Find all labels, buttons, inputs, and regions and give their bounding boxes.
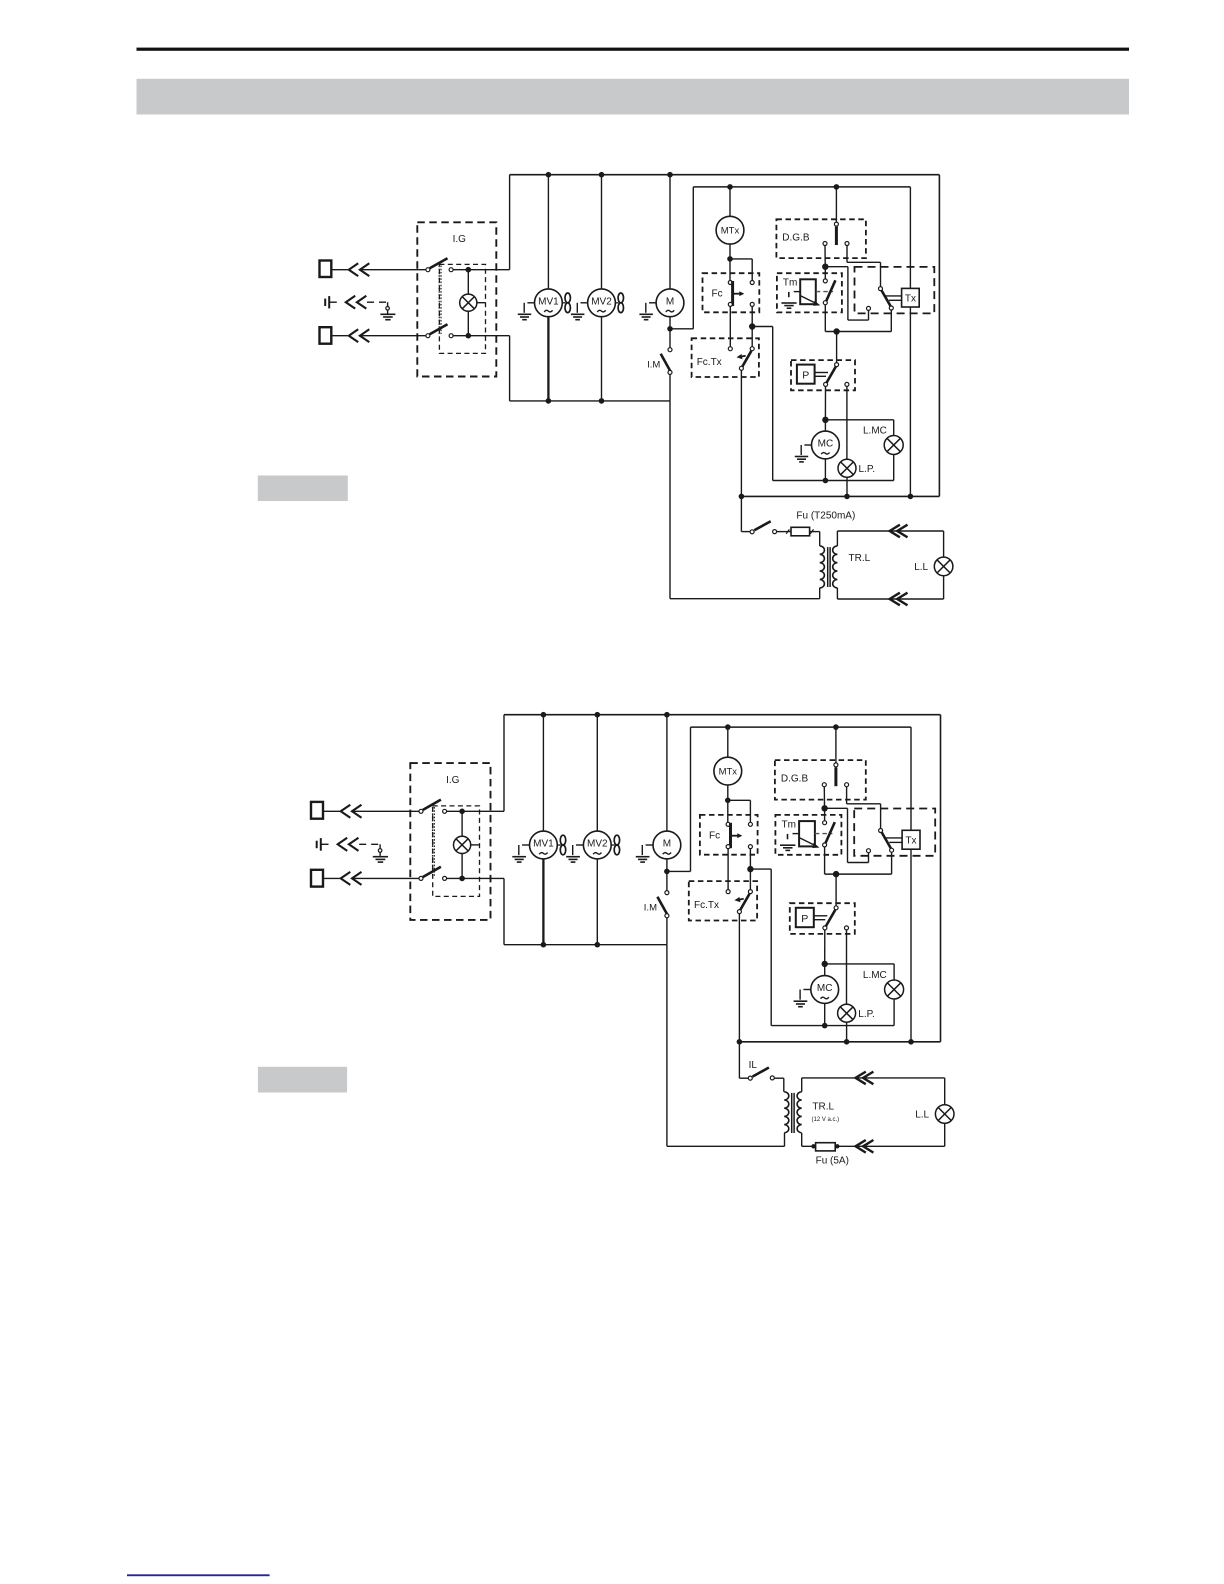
wire MV1 branch: [542, 715, 544, 831]
wire I.G to top bus: [453, 269, 510, 271]
wire plug to connector arrows (lower): [331, 335, 348, 337]
switch box Fc.Tx (dashed): [692, 338, 759, 377]
switch box D.G.B (dashed): [775, 760, 866, 800]
wire P right contact to L.P lamp: [846, 930, 848, 1004]
wire P left contact down: [824, 930, 826, 964]
wire connector to I.G switch (upper): [352, 810, 419, 812]
node below MTx: [727, 256, 733, 262]
wiring diagram 1: [320, 172, 953, 605]
bottom return bus: [741, 495, 939, 497]
wire plug to connector arrows (upper): [323, 810, 340, 812]
node bottom bus L.P: [844, 1039, 850, 1045]
thermostat box Tx: [902, 830, 920, 849]
earth terminal symbol: [316, 841, 318, 849]
I.G ganged linkage (dotted): [432, 807, 434, 877]
Fc.Tx trip arrow: [741, 355, 746, 358]
I.G inner dashed box: [439, 264, 485, 353]
wire M branch: [666, 715, 668, 831]
node I.G upper: [459, 809, 465, 815]
top supply bus: [510, 174, 940, 176]
Fc trip arrow: [734, 293, 741, 295]
node M bottom: [664, 869, 670, 875]
wire D.G.B node to Tx changeover contact: [825, 807, 848, 809]
svg-text:Fu (T250mA): Fu (T250mA): [796, 510, 855, 521]
thermostat box Tm (dashed): [777, 273, 842, 312]
lamp L.MC: [893, 964, 895, 980]
lamp L.P: [838, 459, 856, 477]
wire Fc.Tx to bottom bus: [738, 914, 740, 1042]
wire MC row top: [825, 963, 894, 965]
switch IL: [738, 1042, 740, 1078]
node D.G.B-Tm: [821, 805, 827, 811]
motor MTx: [714, 757, 742, 785]
svg-text:MTx: MTx: [721, 226, 740, 237]
I.G switch pole lower: [426, 334, 430, 338]
wire Fc node to MC box: [752, 326, 773, 328]
wire I.G to top bus: [447, 810, 504, 812]
pressure switch box P (dashed): [790, 903, 855, 934]
wire fuse to transformer: [813, 531, 820, 533]
connector arrows earth line: [346, 296, 355, 309]
wire IL to transformer: [774, 1077, 783, 1079]
D.G.B switch: [835, 727, 837, 763]
node MC feed: [822, 417, 828, 423]
dashed earth wire: [359, 843, 380, 845]
motor MTx: [716, 216, 744, 244]
svg-text:L.P.: L.P.: [858, 1009, 875, 1020]
svg-text:D.G.B: D.G.B: [781, 774, 809, 785]
P switch: [836, 332, 838, 363]
node M bottom: [667, 326, 673, 332]
P body: [797, 365, 815, 384]
wire MC row top: [825, 419, 893, 421]
svg-text:M: M: [663, 839, 671, 850]
svg-text:L.L: L.L: [915, 1110, 929, 1121]
fan of MV2: [611, 844, 614, 846]
svg-text:L.MC: L.MC: [863, 426, 887, 437]
svg-text:Fc: Fc: [709, 831, 720, 842]
node top bus MV1: [546, 172, 552, 178]
svg-text:I.G: I.G: [453, 234, 467, 245]
Fc.Tx contacts and blade: [728, 347, 732, 351]
Tx region dashed box: [854, 809, 935, 856]
page header rule: [137, 48, 1130, 51]
terminal plug lower: [320, 327, 332, 344]
figure label box diagram 2: [258, 1067, 347, 1093]
connector arrows secondary top: [890, 525, 900, 538]
wire D.G.B left contact down: [824, 246, 826, 265]
inner supply bus: [691, 726, 912, 728]
node inner bus D.G.B: [833, 724, 839, 730]
transformer TR.L: [820, 546, 825, 588]
motor M: [653, 831, 681, 859]
svg-text:MV2: MV2: [591, 296, 612, 307]
motor MC: [812, 431, 840, 459]
Tx link lines: [884, 295, 902, 297]
wire plug to connector arrows (upper): [331, 269, 348, 271]
wire MC branch: [824, 964, 826, 976]
wire left return to lamp transformer: [669, 401, 671, 599]
Tm sensor arrow: [800, 295, 817, 303]
svg-text:I.M: I.M: [647, 359, 660, 370]
node inner bus D.G.B: [834, 184, 840, 190]
pilot lamp in I.G: [467, 270, 469, 294]
wire Fc.Tx to bottom bus: [740, 370, 742, 496]
motor MV1: [535, 289, 563, 317]
connector arrows secondary top: [856, 1072, 866, 1085]
motor MV2: [583, 831, 611, 859]
P body: [796, 908, 814, 927]
svg-text:MC: MC: [817, 983, 833, 994]
connector arrows secondary bottom: [856, 1140, 866, 1153]
svg-text:Tx: Tx: [905, 293, 916, 304]
motor MV2: [588, 289, 616, 317]
connector arrows secondary bottom: [890, 593, 900, 606]
wire secondary top: [801, 1078, 803, 1092]
node I.G lower: [466, 333, 472, 339]
wire plug to connector arrows (lower): [323, 877, 340, 879]
node I.G upper: [466, 267, 472, 273]
svg-text:MV1: MV1: [538, 296, 559, 307]
ground at MV2: [581, 302, 588, 304]
wire D.G.B right contact to changeover pivot: [846, 246, 848, 263]
svg-text:L.MC: L.MC: [863, 970, 887, 981]
Fc left pole: [727, 800, 729, 822]
node Fc to MC feed: [747, 866, 753, 872]
node Fc to MC feed: [749, 323, 755, 329]
node bottom bus Tx: [908, 494, 914, 500]
node bottom bus L.P: [844, 494, 850, 500]
wire MV2 branch: [596, 715, 598, 831]
Fc left pole: [729, 259, 731, 281]
pilot lamp in I.G: [461, 811, 463, 836]
switch box Fc.Tx (dashed): [689, 881, 757, 920]
svg-text:L.P.: L.P.: [859, 464, 876, 475]
terminal plug lower: [311, 870, 323, 887]
node MV2 bottom: [595, 942, 601, 948]
lamp L.P: [838, 1004, 856, 1022]
transformer TR.L (12V): [784, 1092, 789, 1133]
wire left return to lamp transformer: [666, 945, 668, 1147]
svg-text:Fc.Tx: Fc.Tx: [697, 357, 722, 368]
ground at M: [646, 844, 653, 846]
node I.G lower: [459, 876, 465, 882]
top supply bus: [504, 714, 941, 716]
svg-text:I.G: I.G: [446, 775, 460, 786]
thermostat box Tx: [902, 288, 920, 307]
motor MTx branch: [729, 187, 731, 216]
wire D.G.B node to Tx changeover contact: [825, 266, 848, 268]
ground at M: [649, 302, 656, 304]
fan of MV1: [558, 844, 561, 846]
terminal plug upper (diagram 1): [320, 261, 332, 278]
wire Tm to P row: [825, 873, 892, 875]
svg-text:Tx: Tx: [905, 835, 916, 846]
motor MV1: [530, 831, 558, 859]
node MC bottom: [823, 478, 829, 484]
main switch I.G dashed box: [410, 763, 490, 920]
svg-text:D.G.B: D.G.B: [782, 233, 810, 244]
Tx changeover switch: [879, 829, 883, 833]
ground at MV1: [522, 844, 529, 846]
Fc right pole: [728, 799, 751, 801]
motor MTx branch: [727, 727, 729, 757]
bottom return bus: [739, 1041, 940, 1043]
earth terminal symbol: [324, 299, 326, 306]
Fc.Tx trip arrow: [739, 898, 744, 901]
node top bus M: [664, 712, 670, 718]
wire connector to I.G switch (lower): [352, 877, 419, 879]
lamp L.L: [943, 531, 945, 557]
Tm sensor arrow: [798, 837, 815, 846]
svg-text:I.M: I.M: [644, 903, 657, 914]
node bottom bus left: [737, 1039, 743, 1045]
wire MC box bottom rail: [771, 1025, 894, 1027]
node P feed: [833, 871, 839, 877]
wire Tx branch: [910, 727, 912, 830]
wire P left contact down: [824, 386, 826, 419]
figure label box diagram 1: [258, 476, 348, 502]
node MV1 bottom: [546, 398, 552, 404]
svg-text:TR.L: TR.L: [849, 553, 871, 564]
wire I.G lower to bottom rail: [453, 335, 510, 337]
Tm sensor body: [799, 821, 815, 846]
Fc.Tx contacts and blade: [726, 890, 730, 894]
fuse Fu (T250mA): [787, 531, 814, 533]
thermostat box Tm (dashed): [775, 815, 841, 855]
svg-text:Fu (5A): Fu (5A): [816, 1156, 849, 1167]
wire connector to I.G switch (lower): [360, 335, 426, 337]
earth ground symbol: [379, 844, 381, 849]
node inner bus MTx: [725, 724, 731, 730]
svg-text:Fc: Fc: [712, 289, 723, 300]
Tm switch: [824, 267, 826, 279]
P link lines: [815, 372, 828, 374]
Tx region dashed box: [855, 267, 935, 314]
ground at MC: [803, 989, 810, 991]
svg-text:M: M: [666, 296, 674, 307]
node MV2 bottom: [599, 398, 605, 404]
wire Tm to P row: [825, 331, 891, 333]
node top bus MV2: [599, 172, 605, 178]
wire D.G.B right contact to changeover pivot: [846, 787, 848, 804]
wire MV1 branch: [547, 175, 549, 289]
main switch I.G dashed box: [417, 222, 496, 376]
node top bus M: [667, 172, 673, 178]
node MC bottom: [822, 1023, 828, 1029]
motor M: [656, 289, 684, 317]
svg-text:TR.L: TR.L: [812, 1101, 834, 1112]
node MC feed: [822, 961, 828, 967]
fuse Fu (5A): [816, 1143, 836, 1151]
svg-text:Fc.Tx: Fc.Tx: [694, 900, 719, 911]
wiring diagram 2: [311, 712, 954, 1167]
wire M node to inner box: [667, 870, 691, 872]
connector arrows upper line: [341, 805, 351, 818]
switch I.M: [666, 871, 668, 890]
Tx link lines: [884, 837, 902, 839]
fan of MV2: [615, 302, 618, 304]
switch I.M: [669, 329, 671, 348]
svg-text:(12 V a.c.): (12 V a.c.): [812, 1117, 840, 1123]
Tm link dashed: [816, 291, 833, 293]
I.G switch pole lower: [419, 876, 423, 880]
svg-text:IL: IL: [749, 1060, 758, 1071]
motor MC: [811, 976, 839, 1004]
P switch: [835, 874, 837, 906]
Tm sensor body: [800, 279, 816, 304]
wire Tx branch: [909, 187, 911, 289]
connector arrows earth line: [338, 838, 348, 851]
wire outer right edge: [938, 175, 940, 497]
svg-text:MV1: MV1: [533, 839, 554, 850]
switch box D.G.B (dashed): [776, 219, 866, 258]
ground at MV2: [576, 844, 583, 846]
connector arrows lower line: [341, 872, 351, 885]
I.G switch pole upper: [426, 268, 430, 272]
I.G ganged linkage (dotted): [438, 266, 440, 335]
svg-text:P: P: [802, 370, 809, 382]
node P feed: [833, 328, 839, 334]
svg-text:L.L: L.L: [914, 562, 928, 573]
ground at MV1: [527, 302, 534, 304]
node MV1 bottom: [541, 942, 547, 948]
svg-text:MTx: MTx: [719, 767, 738, 778]
node bottom bus left: [739, 494, 745, 500]
terminal plug upper (diagram 2): [311, 802, 323, 819]
wire D.G.B left contact down: [823, 787, 825, 806]
wire MC box bottom rail: [773, 480, 894, 482]
wire M branch: [669, 175, 671, 289]
pressure switch box P (dashed): [791, 360, 855, 390]
connector arrows lower line: [349, 329, 358, 342]
I.G inner dashed box: [433, 806, 480, 897]
lamp L.L: [944, 1078, 946, 1105]
switch box Fc (dashed): [703, 273, 760, 312]
Fc trip arrow: [731, 835, 738, 837]
inner supply bus: [693, 186, 910, 188]
footer blue rule: [127, 1574, 270, 1576]
I.G switch pole upper: [419, 809, 423, 813]
node D.G.B-Tm: [822, 264, 828, 270]
wire M node to inner box: [670, 328, 693, 330]
ground at MC: [804, 444, 811, 446]
svg-text:Tm: Tm: [783, 278, 797, 289]
D.G.B switch: [835, 187, 837, 222]
wire outer right edge: [940, 715, 942, 1042]
Tm ground: [793, 833, 800, 835]
svg-text:MC: MC: [818, 439, 834, 450]
svg-text:MV2: MV2: [587, 839, 608, 850]
wire secondary top: [836, 531, 838, 546]
wire MV2 branch: [601, 175, 603, 289]
node top bus MV1: [541, 712, 547, 718]
node below MTx: [725, 798, 731, 804]
lamp L.MC: [893, 420, 895, 436]
dashed earth wire: [367, 301, 388, 303]
Tx changeover switch: [879, 287, 883, 291]
Tm switch: [824, 808, 826, 820]
wire secondary bottom with fuse: [801, 1133, 803, 1146]
Fc right pole: [730, 258, 752, 260]
page header grey bar: [137, 79, 1130, 115]
node top bus MV2: [595, 712, 601, 718]
wire secondary bottom: [836, 588, 838, 599]
wire connector to I.G switch (upper): [360, 269, 426, 271]
wire Fc node to MC box: [750, 868, 771, 870]
Tm ground: [794, 291, 801, 293]
wire I.G lower to bottom rail: [447, 877, 504, 879]
node inner bus MTx: [727, 184, 733, 190]
wire MC branch: [824, 420, 826, 431]
P link lines: [814, 915, 828, 917]
connector arrows upper line: [349, 263, 358, 276]
fan of MV1: [562, 302, 565, 304]
Tm link dashed: [815, 833, 833, 835]
wire P right contact to L.P lamp: [846, 386, 848, 459]
earth ground symbol: [387, 302, 389, 306]
switch box Fc (dashed): [700, 815, 758, 855]
svg-text:Tm: Tm: [782, 819, 796, 830]
svg-text:P: P: [801, 913, 808, 925]
node bottom bus Tx: [908, 1039, 914, 1045]
switch lamp circuit (unlabeled): [740, 496, 742, 531]
